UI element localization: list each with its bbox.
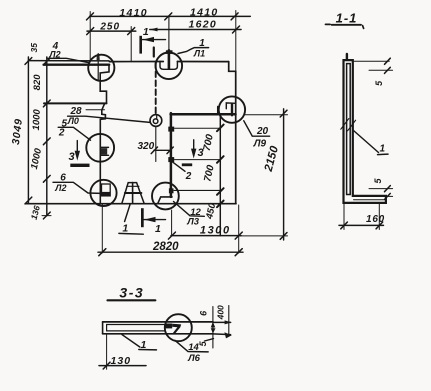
weld detail fill block xyxy=(165,324,172,329)
tick 5 lower xyxy=(205,339,214,341)
leader label 6/L2 xyxy=(53,182,101,193)
leader label 1 (3-3) xyxy=(122,335,140,348)
svg-text:250: 250 xyxy=(99,21,120,32)
short edge line under rebate xyxy=(86,109,105,111)
embed plate square lower xyxy=(169,188,174,193)
svg-text:1: 1 xyxy=(199,38,205,49)
ticks 5 bottom xyxy=(385,186,391,192)
panel left edge with corner rebate (in detail circle) xyxy=(100,65,109,104)
weld detail 7-shape xyxy=(172,324,181,333)
detail circle bottom-right xyxy=(152,183,179,210)
svg-text:Л6: Л6 xyxy=(187,353,201,364)
svg-text:1410: 1410 xyxy=(119,7,148,19)
svg-text:1-1: 1-1 xyxy=(336,11,358,26)
svg-text:130: 130 xyxy=(111,355,132,367)
svg-text:1: 1 xyxy=(380,143,386,154)
bar outer bottom 3-3 xyxy=(103,333,213,335)
leader label 1 (1-1) xyxy=(354,131,379,153)
svg-text:1: 1 xyxy=(140,339,146,351)
bar inner slot top xyxy=(107,324,166,326)
section 1-1 title underline xyxy=(332,24,362,26)
small arrow down at bar end xyxy=(211,328,216,333)
ext 2820 left xyxy=(101,205,103,254)
dim ext line 400 xyxy=(228,306,230,336)
svg-text:3-3: 3-3 xyxy=(119,285,144,301)
svg-text:3: 3 xyxy=(69,151,75,163)
svg-text:20: 20 xyxy=(256,126,269,137)
detail circle TL xyxy=(88,55,114,81)
title dash left xyxy=(326,23,331,25)
ext inner top to 2150 xyxy=(245,114,288,116)
svg-text:1000: 1000 xyxy=(31,108,43,130)
bar outer top 3-3 xyxy=(103,321,213,323)
panel right edge xyxy=(235,71,237,203)
corner notch detail L9 lines xyxy=(226,103,235,109)
svg-text:1620: 1620 xyxy=(189,19,218,31)
anchor bolt in slot xyxy=(168,16,170,50)
svg-text:1000: 1000 xyxy=(29,147,44,171)
embed plate square middle xyxy=(168,157,174,162)
svg-text:1: 1 xyxy=(155,223,161,235)
dim line bar-top extension with arrow xyxy=(213,321,231,323)
svg-text:2: 2 xyxy=(58,128,65,139)
top surface ext line xyxy=(353,60,389,62)
svg-text:1: 1 xyxy=(143,26,149,38)
detail circle bottom-left xyxy=(90,180,116,206)
bar left cap xyxy=(102,322,104,334)
inner opening bottom step xyxy=(158,197,172,204)
dim 1300 line xyxy=(171,235,241,237)
inner opening left edge (thick) xyxy=(170,113,173,197)
ext right edge down xyxy=(238,205,240,253)
svg-text:3049: 3049 xyxy=(10,118,25,146)
centerline below node d xyxy=(155,126,157,161)
flange 5 ext line top xyxy=(369,69,393,71)
svg-text:136: 136 xyxy=(29,204,42,221)
dim 130 ext line xyxy=(106,335,108,370)
mid-left notch lines xyxy=(100,146,108,148)
section 3-3 title underline xyxy=(108,299,156,301)
bar inner left cap xyxy=(106,325,108,331)
svg-text:Л1: Л1 xyxy=(193,49,205,59)
channel inner slot 1-1 xyxy=(347,64,351,195)
channel outer outline 1-1 xyxy=(344,60,386,203)
detail circle mid-left xyxy=(86,134,114,162)
dim 250 line xyxy=(87,30,136,32)
centerline stub xyxy=(153,48,155,57)
bar inner slot bottom xyxy=(107,330,166,332)
left overall dim 3049 line xyxy=(27,57,29,204)
dim row 1410+1410 line xyxy=(90,15,251,17)
svg-text:2820: 2820 xyxy=(152,241,179,253)
anchor slot (detail L1) xyxy=(160,61,177,69)
ext middle plate to chain xyxy=(175,159,221,161)
820 extension thick line xyxy=(44,102,107,104)
bottom-left corner plate detail xyxy=(102,184,111,196)
dim 1620 line xyxy=(150,29,241,31)
section 1 marker top xyxy=(139,36,142,54)
section 3 marker left xyxy=(76,141,78,155)
ext line right edge xyxy=(235,11,237,72)
panel bottom edge xyxy=(26,203,237,205)
section 1 marker bottom xyxy=(141,208,144,227)
svg-text:Л2: Л2 xyxy=(54,183,66,193)
detail circle L1 xyxy=(156,53,183,80)
dim 320 xyxy=(154,149,170,151)
svg-text:5: 5 xyxy=(198,340,208,346)
ticks 5 top xyxy=(385,58,391,64)
svg-text:160: 160 xyxy=(366,214,385,225)
dashed centerline xyxy=(155,63,157,114)
leader label L1 xyxy=(178,48,209,54)
chain 136 end bar xyxy=(42,215,51,217)
svg-text:400: 400 xyxy=(216,305,226,320)
svg-text:1300: 1300 xyxy=(200,224,231,236)
mid-left notch fill xyxy=(101,148,107,154)
dim ext line 6/5 xyxy=(212,307,214,349)
dim 2150 line xyxy=(283,109,285,240)
leader label 14/L6 xyxy=(175,340,208,352)
dim 160 ext lines xyxy=(343,204,345,230)
panel top edge xyxy=(109,61,163,63)
ext 1300 left xyxy=(171,210,173,236)
inner opening top edge (thick) xyxy=(171,113,236,116)
svg-text:820: 820 xyxy=(32,74,43,91)
top edge stub pin left xyxy=(97,54,99,81)
panel top edge stepped ledge (35 step, thick) xyxy=(44,63,110,65)
ext line 250 right xyxy=(130,27,132,62)
panel top edge right of slot xyxy=(177,61,228,63)
node d circle xyxy=(150,115,162,127)
section 3 marker inner xyxy=(193,140,195,153)
svg-text:320: 320 xyxy=(137,141,154,152)
svg-text:Л0: Л0 xyxy=(67,116,79,126)
break mark 1-1 xyxy=(341,119,349,130)
top-right corner step xyxy=(229,62,236,72)
leader label 2 xyxy=(172,161,186,171)
svg-text:5: 5 xyxy=(373,178,383,184)
lifting key trapezoid xyxy=(122,183,144,204)
small arrow up at bar end xyxy=(211,322,216,328)
svg-text:1410: 1410 xyxy=(190,6,219,18)
detail circle L9 xyxy=(219,96,245,122)
leader label 4/L2 xyxy=(48,58,88,62)
title dot right xyxy=(363,26,364,29)
dim 160 line xyxy=(339,224,384,226)
dim 2820 line xyxy=(98,251,243,253)
ext bottom to 2150 xyxy=(240,235,288,237)
svg-text:Л3: Л3 xyxy=(186,216,200,227)
svg-text:Л9: Л9 xyxy=(253,139,267,150)
extension from lower plate to chain xyxy=(174,189,220,191)
svg-text:6: 6 xyxy=(198,310,208,316)
ext line left xyxy=(89,12,91,61)
top stub 1-1 xyxy=(346,54,348,60)
svg-text:700: 700 xyxy=(202,133,216,152)
tick xyxy=(87,13,94,20)
embed plate square upper xyxy=(168,127,174,132)
leader label 20/L9 xyxy=(244,121,270,136)
dim 130 line xyxy=(99,365,146,367)
panel left edge jog below rebate xyxy=(100,104,105,204)
channel foot inner line xyxy=(354,199,385,201)
svg-text:700: 700 xyxy=(202,164,216,183)
svg-text:14: 14 xyxy=(188,342,199,353)
dim line bar-bottom extension with arrow xyxy=(213,333,231,336)
svg-text:6: 6 xyxy=(60,172,66,183)
svg-text:35: 35 xyxy=(29,43,39,53)
inner chain dim line 700/700/450 xyxy=(219,114,221,236)
svg-text:2: 2 xyxy=(185,171,192,182)
svg-text:5: 5 xyxy=(374,80,384,86)
panel top edge left ledge line xyxy=(28,60,109,62)
leader label 5/2 xyxy=(58,127,90,140)
leader label 28/L0 xyxy=(68,116,150,122)
svg-text:Л2: Л2 xyxy=(48,49,60,59)
leader label 12/L3 xyxy=(174,202,205,217)
ext upper plate to chain xyxy=(175,127,221,129)
leader trapezoid label 1 xyxy=(125,204,131,222)
svg-text:450: 450 xyxy=(204,201,218,220)
detail circle 3-3 xyxy=(165,314,192,341)
left chain dim line xyxy=(46,57,48,216)
flange 5 ext line bottom xyxy=(369,188,393,190)
svg-text:1: 1 xyxy=(122,222,128,234)
